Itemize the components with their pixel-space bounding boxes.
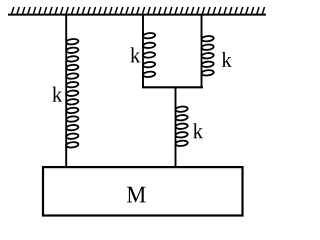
label k (S3) <box>222 52 232 67</box>
ceiling hatching <box>12 7 265 14</box>
label k (S2) <box>130 47 140 62</box>
spring k S2 (pair left) <box>143 32 156 77</box>
label k (S4) <box>193 123 203 138</box>
mass block M <box>43 167 243 215</box>
wire: ceiling to left spring <box>65 14 67 40</box>
wire: S1 to mass <box>65 146 67 167</box>
wire: ceiling to S3 <box>201 14 203 37</box>
spring k S4 (lower series) <box>175 106 188 147</box>
spring k S1 (left) <box>66 38 79 148</box>
label k (S1) <box>52 87 62 102</box>
spring k S3 (pair right) <box>201 35 214 76</box>
label M <box>127 187 146 203</box>
wire: bar to S4 <box>175 87 177 108</box>
wire: S4 to mass <box>175 145 177 167</box>
wire: S2 to bar <box>142 76 144 88</box>
ceiling line <box>8 14 266 16</box>
wire: ceiling to S2 <box>142 14 144 34</box>
wire: S3 to bar <box>201 75 203 89</box>
bar joining parallel springs <box>142 86 203 88</box>
